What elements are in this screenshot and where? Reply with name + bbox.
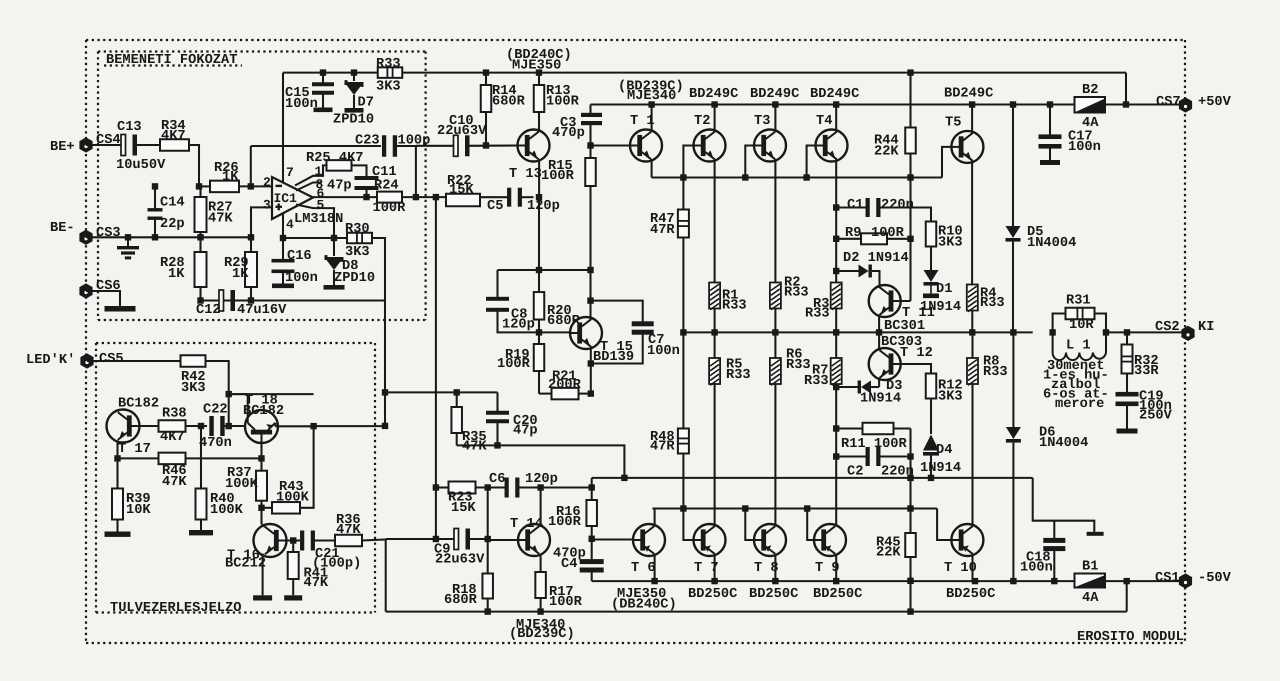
capacitor C2 220n: [836, 455, 866, 457]
wire R26 to IC1 pin2: [239, 185, 272, 187]
wire T16 collector from base node: [262, 524, 265, 527]
svg-text:MJE340: MJE340: [627, 89, 676, 104]
svg-text:4K7: 4K7: [161, 129, 186, 144]
svg-text:7: 7: [286, 165, 294, 180]
svg-text:47K: 47K: [462, 440, 487, 455]
ground at R40: [189, 530, 213, 535]
capacitor C14 22p: [154, 186, 156, 209]
svg-text:BD250C: BD250C: [813, 587, 862, 602]
wire C10 to T13 base node: [467, 144, 518, 146]
wire T5 base from rail: [942, 147, 951, 178]
svg-text:100R: 100R: [548, 515, 582, 530]
resistor R48 47R: [682, 332, 684, 429]
wire R23 to C6: [475, 486, 505, 488]
svg-text:BE-: BE-: [50, 221, 75, 236]
wire R25 to C11: [352, 165, 367, 177]
svg-text:1N914: 1N914: [920, 461, 961, 476]
wire T2 collector: [714, 105, 716, 132]
capacitor C6 120p: [505, 478, 509, 498]
wire T7 emitter chain: [714, 384, 716, 526]
svg-text:CS7: CS7: [1156, 95, 1181, 110]
bottom return rail: [386, 611, 1127, 613]
capacitor C15 100n: [322, 73, 324, 83]
svg-text:C12: C12: [196, 303, 221, 318]
svg-text:CS1: CS1: [1155, 571, 1180, 586]
wire IC1 pin1 stub: [295, 165, 327, 185]
svg-text:BD249C: BD249C: [810, 87, 859, 102]
svg-text:100n: 100n: [647, 344, 680, 359]
diode D6 1N4004: [1012, 332, 1014, 427]
resistor R30 3K3: [347, 233, 372, 244]
wire T7 base riser: [683, 509, 693, 541]
wire T7 collector: [714, 554, 716, 581]
svg-text:470p: 470p: [552, 126, 585, 141]
resistor R37 100K: [260, 458, 262, 470]
svg-text:R33: R33: [784, 286, 809, 301]
svg-text:10R: 10R: [1069, 318, 1094, 333]
svg-text:T 17: T 17: [118, 442, 151, 457]
wire T8 emitter chain: [774, 384, 776, 526]
svg-text:10K: 10K: [126, 503, 151, 518]
outer module border (dotted): [86, 39, 1185, 41]
wire T6 collector to -50 rail: [654, 554, 656, 581]
wire T4 emitter chain: [835, 159, 837, 283]
resistor R3 R33: [831, 283, 842, 309]
resistor R20 680R: [538, 270, 540, 292]
svg-text:120p: 120p: [527, 199, 560, 214]
resistor R24 100R: [377, 192, 402, 203]
svg-text:L 1: L 1: [1066, 339, 1091, 354]
capacitor C7 100n: [591, 301, 643, 322]
terminal CS6: [79, 283, 92, 298]
wire T12 emitter to rail: [878, 332, 880, 350]
resistor R16 100R: [591, 488, 593, 501]
wire C12 bus: [201, 299, 386, 301]
bias bus rail A: [592, 477, 1033, 479]
ground at C15: [314, 108, 333, 113]
svg-text:T 6: T 6: [631, 561, 656, 576]
wire T5 emitter chain: [971, 161, 973, 284]
wire T8 base riser: [745, 509, 754, 541]
node R14/T13 base: [483, 142, 489, 148]
wire T15 collector: [589, 270, 591, 320]
wire T17 base to R38: [140, 425, 159, 427]
resistor R9 100R: [836, 238, 861, 240]
ground at R41: [284, 595, 302, 600]
zener D7 ZPD10: [353, 73, 355, 81]
capacitor C19 100n 250V: [1116, 392, 1139, 397]
svg-text:4K7: 4K7: [160, 430, 185, 445]
transistor T9 BD250C: [814, 524, 846, 556]
op-amp IC1 LM318N: [272, 177, 313, 219]
svg-text:merore: merore: [1055, 397, 1104, 412]
svg-text:22K: 22K: [876, 546, 901, 561]
wire R30 to lower bus: [372, 238, 385, 426]
ground at C17: [1040, 160, 1060, 165]
svg-text:C22: C22: [203, 403, 228, 418]
svg-text:BEMENETI FOKOZAT: BEMENETI FOKOZAT: [106, 53, 237, 68]
transistor T15 BD139: [570, 317, 602, 349]
svg-text:R33: R33: [805, 307, 830, 322]
ground at BE-: [125, 234, 131, 240]
svg-text:220n: 220n: [881, 198, 914, 213]
transistor T13 MJE350: [518, 130, 550, 162]
wire bias riser bottom x910: [909, 429, 911, 478]
wire BE+ to C13: [86, 144, 123, 146]
wire C13 to R34: [135, 144, 160, 146]
svg-text:47p: 47p: [513, 424, 538, 439]
capacitor C5 120p: [480, 196, 508, 198]
resistor R15 100R: [589, 146, 591, 159]
svg-text:100R: 100R: [373, 201, 407, 216]
resistor R29 1K: [248, 234, 254, 240]
resistor R42 3K3: [181, 355, 206, 367]
wire pin4 bias bus: [283, 237, 347, 239]
svg-text:1K: 1K: [168, 267, 185, 282]
wire bias riser x910: [909, 178, 911, 301]
resistor R2 R33: [770, 283, 781, 309]
resistor R14 680R: [485, 73, 487, 85]
wire T9 collector: [835, 554, 837, 581]
svg-text:+50V: +50V: [1198, 95, 1232, 110]
ground at T16: [253, 595, 272, 600]
wire T1 emitter to base rail: [651, 159, 653, 177]
svg-text:T4: T4: [816, 114, 832, 129]
wire C21 to R36: [315, 539, 336, 541]
svg-text:B2: B2: [1082, 83, 1098, 98]
wire T14 base: [488, 539, 518, 541]
svg-text:BD249C: BD249C: [944, 87, 993, 102]
wire T18 collector node: [274, 423, 276, 426]
svg-text:R33: R33: [786, 358, 811, 373]
wire T2 base riser: [683, 146, 693, 178]
ground at C19: [1117, 429, 1138, 434]
node T16 base: [258, 505, 264, 511]
wire T5 collector: [971, 105, 973, 134]
wire IC1 pin4 riser: [282, 213, 284, 238]
wire T9 base riser: [807, 509, 814, 541]
svg-text:TULVEZERLESJELZO: TULVEZERLESJELZO: [110, 601, 241, 616]
resistor R23 15K: [449, 482, 476, 494]
svg-text:T2: T2: [694, 114, 710, 129]
resistor R11 100R: [836, 427, 863, 429]
svg-text:BD249C: BD249C: [750, 87, 799, 102]
svg-text:15K: 15K: [449, 183, 474, 198]
svg-text:C23: C23: [355, 134, 380, 149]
svg-text:C1: C1: [847, 198, 863, 213]
wire R20/C8 top bus: [498, 269, 591, 271]
wire T18 emitter loop: [229, 394, 248, 423]
svg-text:3K3: 3K3: [376, 80, 401, 95]
svg-text:47K: 47K: [162, 475, 187, 490]
resistor R18 680R: [487, 539, 489, 574]
svg-text:CS2: CS2: [1155, 320, 1180, 335]
wire T8 collector: [774, 554, 776, 581]
svg-text:ZPD10: ZPD10: [333, 113, 374, 128]
zener D8 ZPD10: [333, 238, 335, 256]
svg-text:C16: C16: [287, 249, 312, 264]
wire T1 collector: [651, 105, 653, 132]
transistor T7 BD250C: [694, 524, 726, 556]
svg-text:R33: R33: [804, 374, 829, 389]
svg-text:R24: R24: [374, 179, 399, 194]
svg-text:100R: 100R: [546, 95, 580, 110]
node input/R26: [196, 183, 202, 189]
wire R23 bus: [436, 486, 449, 488]
wire C20/R35 bottom bus: [457, 445, 625, 478]
ground at C16: [272, 284, 294, 289]
resistor R38 4K7: [159, 420, 186, 432]
resistor R35 47K: [456, 392, 458, 407]
svg-text:1K: 1K: [232, 267, 249, 282]
input stage box BEMENETI FOKOZAT (dotted): [98, 50, 426, 52]
wire T16 emitter to ground: [262, 554, 264, 596]
svg-text:BD250C: BD250C: [688, 587, 737, 602]
svg-text:3K3: 3K3: [938, 236, 963, 251]
wire T4 collector: [835, 105, 837, 132]
node T15 base: [536, 329, 542, 335]
svg-text:EROSITO MODUL: EROSITO MODUL: [1077, 630, 1184, 645]
capacitor C12 47u16V: [219, 290, 224, 311]
svg-text:R33: R33: [726, 368, 751, 383]
svg-text:MJE350: MJE350: [512, 59, 561, 74]
transistor T5 BD249C: [951, 131, 983, 163]
terminal CS7 +50V: [1179, 97, 1192, 112]
wire BE- bus: [86, 236, 251, 238]
svg-text:R33: R33: [983, 365, 1008, 380]
transistor T16 BC212: [254, 524, 287, 557]
svg-text:LED'K': LED'K': [26, 353, 75, 368]
wire C6 to R16 node: [519, 486, 592, 488]
svg-text:R11 100R: R11 100R: [841, 437, 907, 452]
svg-text:100K: 100K: [210, 503, 244, 518]
wire T17 emitter to R46 bus: [116, 442, 118, 458]
svg-text:1N4004: 1N4004: [1039, 436, 1088, 451]
wire +50V collector rail: [591, 103, 1075, 105]
svg-text:3: 3: [263, 198, 271, 213]
wire CS6 to ground: [86, 291, 120, 306]
-50V rail: [592, 580, 1075, 582]
wire T9 emitter chain: [835, 384, 837, 526]
terminal CS5 (LED'K): [80, 353, 93, 368]
resistor R32 33R: [1126, 332, 1128, 344]
resistor R45 22K: [909, 478, 911, 533]
resistor R26 1K: [210, 181, 239, 193]
svg-text:ZPD10: ZPD10: [334, 271, 375, 286]
wire IC1 pin3 input: [251, 207, 272, 237]
svg-text:680R: 680R: [444, 593, 478, 608]
wire IC1 pin8 stub: [296, 183, 322, 191]
svg-text:R31: R31: [1066, 294, 1091, 309]
svg-text:22p: 22p: [160, 217, 185, 232]
svg-text:BD249C: BD249C: [689, 87, 738, 102]
resistor R12 3K3: [926, 374, 937, 399]
svg-text:22K: 22K: [874, 145, 899, 160]
svg-text:47K: 47K: [304, 576, 329, 591]
transistor T14 MJE340: [518, 524, 550, 556]
svg-text:100R: 100R: [871, 226, 905, 241]
resistor R40 100K: [200, 426, 202, 489]
resistor R13 100R: [538, 73, 540, 85]
svg-text:33R: 33R: [1134, 364, 1159, 379]
svg-text:BE+: BE+: [50, 140, 75, 155]
transistor T17 BC182: [107, 410, 140, 443]
transistor T2 BD249C: [694, 130, 726, 162]
capacitor C16 100n: [282, 238, 284, 261]
wire +V front rail: [283, 72, 378, 74]
svg-text:100n: 100n: [1020, 561, 1053, 576]
terminal CS2 KI: [1181, 326, 1194, 341]
resistor R25 4K7: [327, 160, 352, 171]
terminal CS1 -50V: [1179, 573, 1192, 588]
fuse B2 4A: [1075, 97, 1106, 113]
feedback vertical: [435, 197, 437, 539]
wire T4 base riser: [807, 146, 816, 178]
svg-text:C14: C14: [160, 196, 185, 211]
wire pin2 to C23 riser: [250, 146, 252, 186]
svg-text:250V: 250V: [1139, 409, 1173, 424]
resistor R22 15K: [446, 194, 480, 207]
svg-text:CS3: CS3: [96, 226, 121, 241]
wire to T6 base: [592, 538, 634, 540]
svg-text:100R: 100R: [549, 595, 583, 610]
svg-text:4A: 4A: [1082, 591, 1099, 606]
wire T10 emitter chain: [971, 384, 973, 526]
svg-text:(BD239C): (BD239C): [509, 627, 575, 642]
wire T12 collector to D3: [878, 378, 880, 387]
resistor R27 47K: [199, 186, 201, 197]
wire T14 collector to C6 node: [540, 488, 542, 527]
resistor R10 3K3: [926, 222, 937, 247]
node T6 base: [589, 536, 595, 542]
base rail bottom: [652, 507, 937, 509]
terminal CS3 (BE-): [79, 230, 92, 245]
diode D4 1N914: [930, 399, 932, 435]
svg-text:1N914: 1N914: [860, 392, 901, 407]
resistor R39 10K: [116, 458, 118, 489]
capacitor C20 47p: [457, 391, 498, 393]
diode D2 1N914: [836, 270, 858, 272]
wire R24 to feedback node: [402, 196, 446, 198]
svg-text:220n: 220n: [881, 465, 914, 480]
resistor R43 100K: [262, 507, 273, 509]
wire R42 to C22 node: [206, 361, 229, 426]
svg-text:47u16V: 47u16V: [237, 303, 287, 318]
wire T14 emitter: [540, 554, 542, 572]
svg-text:R9: R9: [845, 226, 861, 241]
svg-text:(DB240C): (DB240C): [611, 598, 677, 613]
svg-text:100K: 100K: [225, 477, 259, 492]
wire to T1 base: [591, 144, 631, 146]
svg-text:R33: R33: [376, 57, 401, 72]
resistor R46 47K: [118, 457, 159, 459]
svg-text:47K: 47K: [208, 212, 233, 227]
wire T3 emitter chain: [774, 159, 776, 283]
wire T6 emitter to base rail: [654, 509, 656, 527]
transistor T11 BC301: [869, 285, 901, 317]
ground at D8: [324, 285, 345, 290]
capacitor C9 22u63V: [386, 538, 456, 540]
svg-text:R38: R38: [162, 407, 187, 422]
wire R38 to C22: [186, 425, 208, 427]
wire IC1 pin7 riser: [282, 73, 284, 183]
svg-text:470n: 470n: [199, 436, 232, 451]
diode D1 1N914: [930, 247, 932, 271]
svg-text:T5: T5: [945, 116, 961, 131]
svg-text:22u63V: 22u63V: [437, 124, 487, 139]
svg-text:100R: 100R: [541, 169, 575, 184]
resistor R28 1K: [199, 237, 201, 252]
wire T15 emitter: [590, 347, 592, 394]
overdrive indicator box TULVEZERLESJELZO (dotted): [96, 342, 375, 344]
transistor T12 BC303: [869, 348, 901, 380]
svg-text:22u63V: 22u63V: [435, 553, 485, 568]
resistor R7 R33: [831, 358, 842, 384]
wire IC1 pin5 stub: [296, 205, 334, 239]
svg-text:100n: 100n: [285, 97, 318, 112]
transistor T4 BD249C: [816, 130, 848, 162]
svg-text:3K3: 3K3: [345, 245, 370, 260]
svg-text:BC182: BC182: [118, 397, 159, 412]
wire T16 base to C21: [287, 539, 301, 541]
wire IC1 output pin6: [313, 196, 377, 198]
resistor R33 3K3: [378, 67, 403, 78]
svg-text:T 13: T 13: [509, 167, 542, 182]
resistor R6 R33: [770, 358, 781, 384]
resistor R21 200R: [539, 393, 552, 395]
capacitor C13 10u50V: [121, 135, 126, 156]
svg-text:47K: 47K: [336, 523, 361, 538]
svg-text:100n: 100n: [1068, 140, 1101, 155]
capacitor C1 220n: [836, 206, 866, 208]
svg-text:47p: 47p: [327, 179, 352, 194]
wire node to R26: [199, 185, 210, 187]
svg-text:1N4004: 1N4004: [1027, 236, 1076, 251]
svg-text:2: 2: [263, 175, 271, 190]
svg-text:KI: KI: [1198, 320, 1214, 335]
ground at R39: [105, 532, 131, 537]
terminal CS4 (BE+): [79, 137, 92, 152]
wire T13 emitter node down to R20 bus: [538, 197, 540, 270]
wire T18 collector to R30 bus: [314, 425, 385, 427]
wire T3 base riser: [745, 146, 754, 178]
capacitor C3 470p: [581, 113, 602, 117]
svg-text:C2: C2: [847, 465, 863, 480]
capacitor C10 22u63V: [416, 145, 457, 147]
wire T11 base lead: [894, 300, 911, 302]
capacitor C23 100p: [251, 145, 381, 147]
wire T12 base lead: [894, 364, 932, 374]
capacitor C8 120p: [496, 270, 498, 299]
node R27/CS3: [197, 234, 203, 240]
inductor L1: [1052, 332, 1054, 352]
capacitor C11 47p: [355, 176, 379, 180]
resistor R31 10R parallel L1: [1053, 314, 1066, 333]
capacitor C21 (100p): [300, 531, 304, 551]
svg-text:100K: 100K: [276, 491, 310, 506]
svg-text:3K3: 3K3: [938, 390, 963, 405]
node pin2: [248, 183, 254, 189]
svg-text:C4: C4: [561, 557, 577, 572]
resistor R41 47K: [292, 541, 294, 553]
resistor R19 100R: [538, 332, 540, 344]
transistor T1 MJE340: [630, 130, 662, 162]
svg-text:BC182: BC182: [243, 404, 284, 419]
svg-text:120p: 120p: [502, 318, 535, 333]
wire C6/C9 node riser: [487, 488, 489, 540]
resistor R36 47K: [335, 535, 362, 547]
resistor R34 4K7: [160, 139, 189, 151]
